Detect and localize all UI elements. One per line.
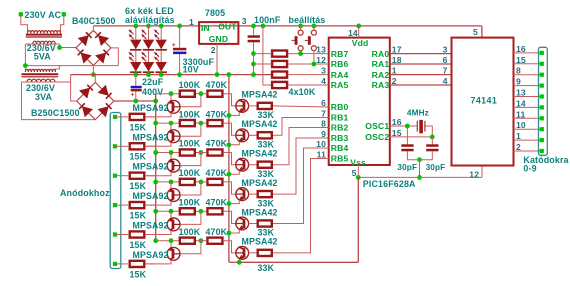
wire RB4 net from 33K #5 to PIC <box>273 148 329 224</box>
wire MPSA42 #6 base to 33K <box>249 252 257 254</box>
node junction MPSA92 #1 emitter <box>169 91 174 96</box>
svg-text:MPSA92: MPSA92 <box>133 221 169 231</box>
bridge rectifier B250C1500 <box>77 82 114 119</box>
svg-text:RB4: RB4 <box>331 143 349 153</box>
node anode bus pin 5 <box>113 232 117 236</box>
resistor 10K #4 <box>272 82 287 88</box>
node junction T1 secondary left / T2 primary <box>23 63 28 68</box>
wire T2 primary feed left <box>24 66 26 72</box>
wire 470K #6 to MPSA42 collector <box>224 241 236 253</box>
node junction 10K #4 pull-up on +5V rail <box>261 24 266 29</box>
resistor 100K #4 <box>180 179 195 185</box>
wire 15K #4 left <box>115 204 128 206</box>
LED D5 blue <box>156 40 167 50</box>
transformer T1 core <box>26 34 62 36</box>
svg-text:3: 3 <box>443 45 448 55</box>
wire MPSA42 #5 emitter <box>229 230 239 233</box>
wire 470K #4 to MPSA42 collector <box>224 182 236 194</box>
svg-text:15K: 15K <box>130 122 147 132</box>
wire 74141 output pin 13 <box>514 96 541 98</box>
svg-text:12: 12 <box>316 55 326 65</box>
wire MPSA42 emitter ground rail vertical <box>228 75 230 263</box>
wire 74141 output pin 10 <box>514 128 541 130</box>
wire RB7 pin13 net <box>288 53 328 55</box>
wire +8V / +5V top rail <box>93 25 482 27</box>
transistor MPSA92 #3 <box>170 153 172 160</box>
node junction bridge B1 minus on ground rail <box>91 72 96 77</box>
svg-text:PIC16F628A: PIC16F628A <box>363 179 416 189</box>
connector pin 1 <box>540 62 544 66</box>
svg-text:5: 5 <box>473 27 478 37</box>
wire crystal to OSC2 <box>426 126 433 137</box>
node junction button S2 on +5V rail <box>312 24 317 29</box>
node junction 7805 GND on ground rail <box>215 72 220 77</box>
wire 10K #2 left <box>254 63 272 65</box>
node junction MPSA92 #4 emitter <box>169 180 174 185</box>
node junction divider #5 <box>199 209 204 214</box>
wire bridge B1 minus down to ground rail <box>92 65 94 74</box>
resistor 15K #3 <box>130 173 145 179</box>
svg-text:470K: 470K <box>206 80 228 90</box>
wire MPSA92 #5 base from divider <box>180 211 201 224</box>
svg-text:15K: 15K <box>130 181 147 191</box>
svg-text:MPSA92: MPSA92 <box>133 250 169 260</box>
node junction rail row 4 <box>153 180 158 185</box>
resistor 470K #1 <box>207 91 222 97</box>
svg-text:8: 8 <box>516 66 521 76</box>
wire LED column 1 middle <box>135 51 137 62</box>
svg-text:GND: GND <box>209 34 228 44</box>
svg-text:470K: 470K <box>206 198 228 208</box>
svg-text:RB6: RB6 <box>331 59 349 69</box>
LED column 3 cathode junction on ground <box>160 73 162 75</box>
wire bridge B1 AC right return <box>111 48 118 66</box>
wire divider link #2 <box>196 122 206 124</box>
wire 15K #6 left <box>115 263 128 265</box>
wire +5V down to 74141 pin5 <box>481 26 483 38</box>
transistor MPSA42 #3 <box>236 158 249 171</box>
resistor 470K #6 <box>207 238 222 244</box>
node junction MPSA42 #4 emitter on rail <box>227 201 232 206</box>
wire LED column 3 <box>160 26 162 40</box>
wire 30pF common to ground <box>419 160 421 178</box>
svg-text:2: 2 <box>516 142 521 152</box>
svg-text:+: + <box>131 92 135 99</box>
node junction 100nF on +5V rail <box>251 24 256 29</box>
wire RA0 to 74141 <box>390 53 452 55</box>
wire 15K #6 right stub <box>146 263 155 265</box>
resistor 470K #5 <box>207 208 222 214</box>
wire 470K #3 to MPSA42 collector <box>224 153 236 165</box>
svg-text:12: 12 <box>469 169 479 179</box>
connector Katodokra 0-9 <box>539 47 548 155</box>
svg-text:3: 3 <box>242 16 247 26</box>
LED column 1 cathode junction on ground <box>135 73 137 75</box>
node junction Vdd on +5V rail <box>356 24 361 29</box>
wire +170V emitter rail vertical <box>155 94 157 241</box>
wire 30pF cap1 top lead <box>406 126 408 144</box>
capacitor 30pF C2 <box>426 144 438 147</box>
wire 74141 output pin 14 <box>514 106 541 108</box>
node junction 10K pulldown 2 <box>251 62 256 67</box>
wire divider link #4 <box>196 181 206 183</box>
node junction divider #6 <box>199 238 204 243</box>
svg-text:MPSA42: MPSA42 <box>242 178 278 188</box>
svg-text:MPSA42: MPSA42 <box>242 119 278 129</box>
wire RB2 net from 33K #3 to PIC <box>273 128 329 165</box>
wire T1 secondary left down <box>25 43 59 45</box>
resistor 100K #2 <box>180 120 195 126</box>
svg-text:400V: 400V <box>142 87 163 97</box>
node anode bus pin 3 <box>113 174 117 178</box>
svg-text:MPSA92: MPSA92 <box>133 103 169 113</box>
transistor MPSA92 #4 <box>170 182 172 189</box>
svg-text:3VA: 3VA <box>35 92 52 102</box>
wire T1 secondary right to bridge B1 <box>59 44 61 48</box>
bus Anodokhoz anode bus <box>110 113 121 269</box>
node junction divider #1 <box>199 91 204 96</box>
wire MPSA42 #4 base to 33K <box>249 193 257 195</box>
node junction +170V at emitter rail <box>153 99 158 104</box>
svg-text:470K: 470K <box>206 168 228 178</box>
svg-text:15K: 15K <box>130 269 147 279</box>
node anode bus pin 2 <box>113 144 117 148</box>
wire AC return horizontal to T1 secondary left <box>25 65 118 67</box>
transistor MPSA92 #2 <box>170 123 172 130</box>
connector pin 7 <box>540 127 544 131</box>
node junction 30pF common <box>417 157 422 162</box>
svg-text:13: 13 <box>316 45 326 55</box>
svg-text:Vdd: Vdd <box>352 38 369 48</box>
wire MPSA42 #3 base to 33K <box>249 164 257 166</box>
wire 15K #5 right stub <box>146 234 155 236</box>
svg-text:100K: 100K <box>179 198 201 208</box>
resistor 10K #2 <box>272 61 287 67</box>
svg-text:OUT: OUT <box>218 21 237 31</box>
connector pin 3 <box>540 84 544 88</box>
resistor 33K #2 <box>258 132 272 138</box>
svg-text:4MHz: 4MHz <box>407 108 429 117</box>
node junction emitter ground rail top <box>227 72 232 77</box>
svg-text:RB1: RB1 <box>331 113 349 123</box>
wire RA5 pin4 net <box>288 84 328 86</box>
node junction OSC2 <box>430 135 435 140</box>
node anode bus pin 4 <box>113 203 117 207</box>
wire 30pF cap2 top lead <box>431 137 433 144</box>
connector pin 6 <box>540 116 544 120</box>
wire button S2 bottom <box>313 51 315 65</box>
svg-text:MPSA42: MPSA42 <box>242 90 278 100</box>
svg-text:MPSA92: MPSA92 <box>133 191 169 201</box>
wire MPSA42 #6 emitter <box>229 259 239 262</box>
svg-text:RB0: RB0 <box>331 102 349 112</box>
svg-text:RA2: RA2 <box>372 70 390 80</box>
svg-text:15K: 15K <box>130 211 147 221</box>
node junction MPSA42 #1 emitter on rail <box>227 113 232 118</box>
wire divider link #6 <box>196 240 206 242</box>
wire 74141 output pin 9 <box>514 85 541 87</box>
wire 100nF top lead <box>253 26 255 35</box>
transistor MPSA42 #6 <box>236 247 249 260</box>
wire 470K #5 to MPSA42 collector <box>224 211 236 223</box>
svg-text:MPSA42: MPSA42 <box>242 149 278 159</box>
wire bridge B2 plus to +170V line <box>114 100 156 102</box>
wire row 5 emitter line <box>156 210 179 212</box>
resistor 470K #3 <box>207 149 222 155</box>
wire MPSA92 #5 collector <box>146 230 171 234</box>
node junction button S1 on +5V rail <box>298 24 303 29</box>
svg-text:470K: 470K <box>206 109 228 119</box>
node junction 3300uF on ground rail <box>177 72 182 77</box>
svg-text:10: 10 <box>516 120 526 130</box>
node anode bus pin 6 <box>113 262 117 266</box>
svg-text:IN: IN <box>201 23 210 33</box>
svg-text:2: 2 <box>211 45 216 55</box>
voltage regulator 7805 U2 <box>199 22 238 44</box>
wire LED column 1 <box>135 26 137 40</box>
wire RA3 to 74141 <box>390 84 452 86</box>
wire 10K #1 left <box>254 53 272 55</box>
transistor MPSA92 #6 <box>170 241 172 248</box>
transistor MPSA42 #2 <box>236 129 249 142</box>
wire ground Vss horizontal <box>358 176 482 178</box>
node junction MPSA42 #5 emitter on rail <box>227 231 232 236</box>
wire row 2 emitter line <box>156 122 179 124</box>
svg-text:0-9: 0-9 <box>523 164 536 174</box>
wire MPSA42 #2 emitter <box>229 142 239 145</box>
svg-text:4: 4 <box>443 76 448 86</box>
LED column 2 cathode junction on ground <box>148 73 150 75</box>
svg-text:14: 14 <box>348 28 358 38</box>
wire MPSA92 #4 collector <box>146 201 171 205</box>
svg-text:OSC1: OSC1 <box>365 121 389 131</box>
node junction 3300uF on +8V rail <box>177 24 182 29</box>
svg-text:230V AC: 230V AC <box>25 10 62 20</box>
wire ground rail elbow to bridge B2 AC left <box>71 75 77 101</box>
svg-text:OSC2: OSC2 <box>365 132 389 142</box>
wire LED column 2 <box>148 26 150 40</box>
node junction rail row 5 <box>153 209 158 214</box>
LED D4 blue <box>143 62 154 72</box>
wire 7805 GND pin down <box>216 44 218 75</box>
wire 74141 output pin 15 <box>514 63 541 65</box>
LED column 2 anode junction <box>146 24 151 29</box>
wire MPSA42 #4 emitter <box>229 200 239 203</box>
node junction +170V at 22uF <box>133 99 138 104</box>
wire OSC1 <box>390 125 417 127</box>
wire ground return vertical to Vss <box>357 177 359 262</box>
node junction rail row 2 <box>153 121 158 126</box>
svg-text:B250C1500: B250C1500 <box>31 108 80 118</box>
node junction T1 secondary right <box>57 45 62 50</box>
wire RA4 pin3 net <box>288 74 328 76</box>
LED column 1 anode junction <box>133 24 138 29</box>
wire row 3 emitter line <box>156 152 179 154</box>
connector pin 5 <box>540 105 544 109</box>
resistor 470K #4 <box>207 179 222 185</box>
svg-text:RB3: RB3 <box>331 133 349 143</box>
wire 30pF bottoms join <box>406 151 408 159</box>
wire 15K #2 left <box>115 145 128 147</box>
BCD decoder 74141 U3 <box>452 38 514 166</box>
wire 100nF bottom lead to ground <box>253 42 255 74</box>
svg-text:13: 13 <box>516 88 526 98</box>
svg-text:15: 15 <box>516 55 526 65</box>
LED D3 blue <box>143 40 154 50</box>
svg-text:5: 5 <box>352 168 357 178</box>
wire 3300uF top lead <box>179 26 181 48</box>
resistor 33K #5 <box>258 220 272 226</box>
wire MPSA42 #3 emitter <box>229 171 239 174</box>
svg-text:30pF: 30pF <box>426 163 446 172</box>
wire MPSA92 #3 base from divider <box>180 153 201 166</box>
node junction MPSA42 #2 emitter on rail <box>227 142 232 147</box>
svg-text:RB5: RB5 <box>331 154 349 164</box>
node junction divider #2 <box>199 121 204 126</box>
wire MPSA42 #5 base to 33K <box>249 223 257 225</box>
wire 15K #3 right stub <box>146 175 155 177</box>
LED D2 blue <box>130 62 141 72</box>
wire divider link #3 <box>196 152 206 154</box>
svg-text:33K: 33K <box>258 263 275 273</box>
svg-text:RB7: RB7 <box>331 49 349 59</box>
bridge rectifier B40C1500 <box>76 30 111 65</box>
node junction 100nF ground <box>251 72 256 77</box>
svg-text:RA1: RA1 <box>372 59 390 69</box>
wire divider link #5 <box>196 210 206 212</box>
wire bridge B1 plus up to +8V rail <box>92 26 94 31</box>
crystal 4MHz Q7 <box>416 121 418 132</box>
svg-text:100K: 100K <box>179 227 201 237</box>
svg-text:3: 3 <box>321 66 326 76</box>
node junction Vss ground <box>356 175 361 180</box>
microcontroller PIC16F628A U1 <box>329 38 390 165</box>
wire 74141 output pin 1 <box>514 139 541 141</box>
resistor 33K #1 <box>258 103 272 109</box>
svg-text:15K: 15K <box>130 240 147 250</box>
node junction button S2 output <box>312 62 317 67</box>
svg-text:Anódokhoz: Anódokhoz <box>60 188 110 198</box>
LED column 3 anode junction <box>159 24 164 29</box>
svg-text:100K: 100K <box>179 139 201 149</box>
wire mains left to transformer T1 primary <box>21 16 28 33</box>
wire MPSA92 #1 collector <box>146 113 171 117</box>
connector pin 0 <box>540 51 544 55</box>
svg-text:15K: 15K <box>130 152 147 162</box>
transistor MPSA42 #5 <box>236 217 249 230</box>
svg-text:1: 1 <box>189 17 194 27</box>
connector pin 8 <box>540 138 544 142</box>
transformer T2 230/6V 3VA primary winding <box>25 69 55 72</box>
wire MPSA42 #2 base to 33K <box>249 134 257 136</box>
wire row 6 emitter line <box>156 240 179 242</box>
svg-text:RB2: RB2 <box>331 123 349 133</box>
wire MPSA92 #6 collector <box>146 260 171 264</box>
node junction divider #3 <box>199 150 204 155</box>
svg-text:RA0: RA0 <box>372 49 390 59</box>
resistor 100K #1 <box>180 91 195 97</box>
wire 74141 output pin 2 <box>514 150 541 152</box>
node junction divider #4 <box>199 180 204 185</box>
wire RB3 net from 33K #4 to PIC <box>273 138 329 194</box>
resistor 15K #1 <box>130 114 145 120</box>
wire T2 secondary right stub <box>56 81 71 83</box>
wire RA2 to 74141 <box>390 74 452 76</box>
wire MPSA92 #1 base from divider <box>180 94 201 107</box>
transformer T2 core <box>22 73 59 75</box>
node junction MPSA92 #3 emitter <box>169 150 174 155</box>
wire RB6 pin12 net <box>288 63 328 65</box>
wire ground rail horizontal <box>71 74 272 76</box>
svg-text:30pF: 30pF <box>397 163 417 172</box>
wire MPSA92 #2 collector <box>146 142 171 146</box>
svg-text:MPSA42: MPSA42 <box>242 237 278 247</box>
wire MPSA92 #3 collector <box>146 172 171 176</box>
svg-text:5VA: 5VA <box>34 52 51 62</box>
svg-text:RA4: RA4 <box>331 70 349 80</box>
transformer T1 230/6V 5VA primary winding <box>28 31 61 34</box>
node junction rail row 3 <box>153 150 158 155</box>
wire 15K #2 right stub <box>146 145 155 147</box>
wire 15K #4 right stub <box>146 204 155 206</box>
svg-text:16: 16 <box>516 44 526 54</box>
wire RB5 net from 33K #6 to PIC <box>273 159 329 253</box>
wire MPSA92 #4 base from divider <box>180 182 201 195</box>
svg-text:7: 7 <box>443 66 448 76</box>
transistor MPSA42 #1 <box>236 100 249 113</box>
transistor MPSA42 #4 <box>236 188 249 201</box>
svg-text:100K: 100K <box>179 80 201 90</box>
resistor 15K #6 <box>130 261 145 267</box>
svg-text:RA3: RA3 <box>372 80 390 90</box>
svg-text:6: 6 <box>443 55 448 65</box>
transistor MPSA92 #5 <box>170 211 172 218</box>
pushbutton S1 <box>300 26 302 30</box>
wire to bridge B1 AC left <box>60 47 76 49</box>
capacitor 22uF 400V <box>131 86 142 89</box>
wire row 1 emitter line <box>156 93 179 95</box>
connector pin 9 <box>540 149 544 153</box>
resistor 33K #6 <box>258 250 272 256</box>
resistor 10K #1 <box>272 51 287 57</box>
wire LED column 3 middle <box>160 51 162 62</box>
resistor 100K #5 <box>180 208 195 214</box>
resistor 33K #4 <box>258 191 272 197</box>
node junction MPSA92 #5 emitter <box>169 209 174 214</box>
node anode bus pin 1 <box>113 115 117 119</box>
svg-text:9: 9 <box>516 77 521 87</box>
wire button S1 bottom <box>300 51 302 54</box>
wire 15K #1 left <box>115 116 128 118</box>
node junction button S1 output <box>298 51 303 56</box>
wire T2 primary feed right <box>55 66 59 72</box>
svg-text:100K: 100K <box>179 168 201 178</box>
wire divider link #1 <box>196 93 206 95</box>
svg-text:B40C1500: B40C1500 <box>72 16 116 26</box>
node junction MPSA92 #2 emitter <box>169 121 174 126</box>
LED D1 blue <box>130 40 141 50</box>
svg-text:MPSA92: MPSA92 <box>133 132 169 142</box>
wire 15K #1 right stub <box>146 116 155 118</box>
resistor 15K #4 <box>130 202 145 208</box>
svg-text:1: 1 <box>516 131 521 141</box>
wire RB0 net from 33K #1 to PIC <box>273 106 329 107</box>
wire mains right to transformer T1 primary <box>61 16 64 33</box>
wire RB1 net from 33K #2 to PIC <box>273 118 329 136</box>
node 230V AC input terminal left <box>19 12 23 16</box>
wire 15K #5 left <box>115 234 128 236</box>
wire ground return horizontal bottom <box>229 261 358 263</box>
